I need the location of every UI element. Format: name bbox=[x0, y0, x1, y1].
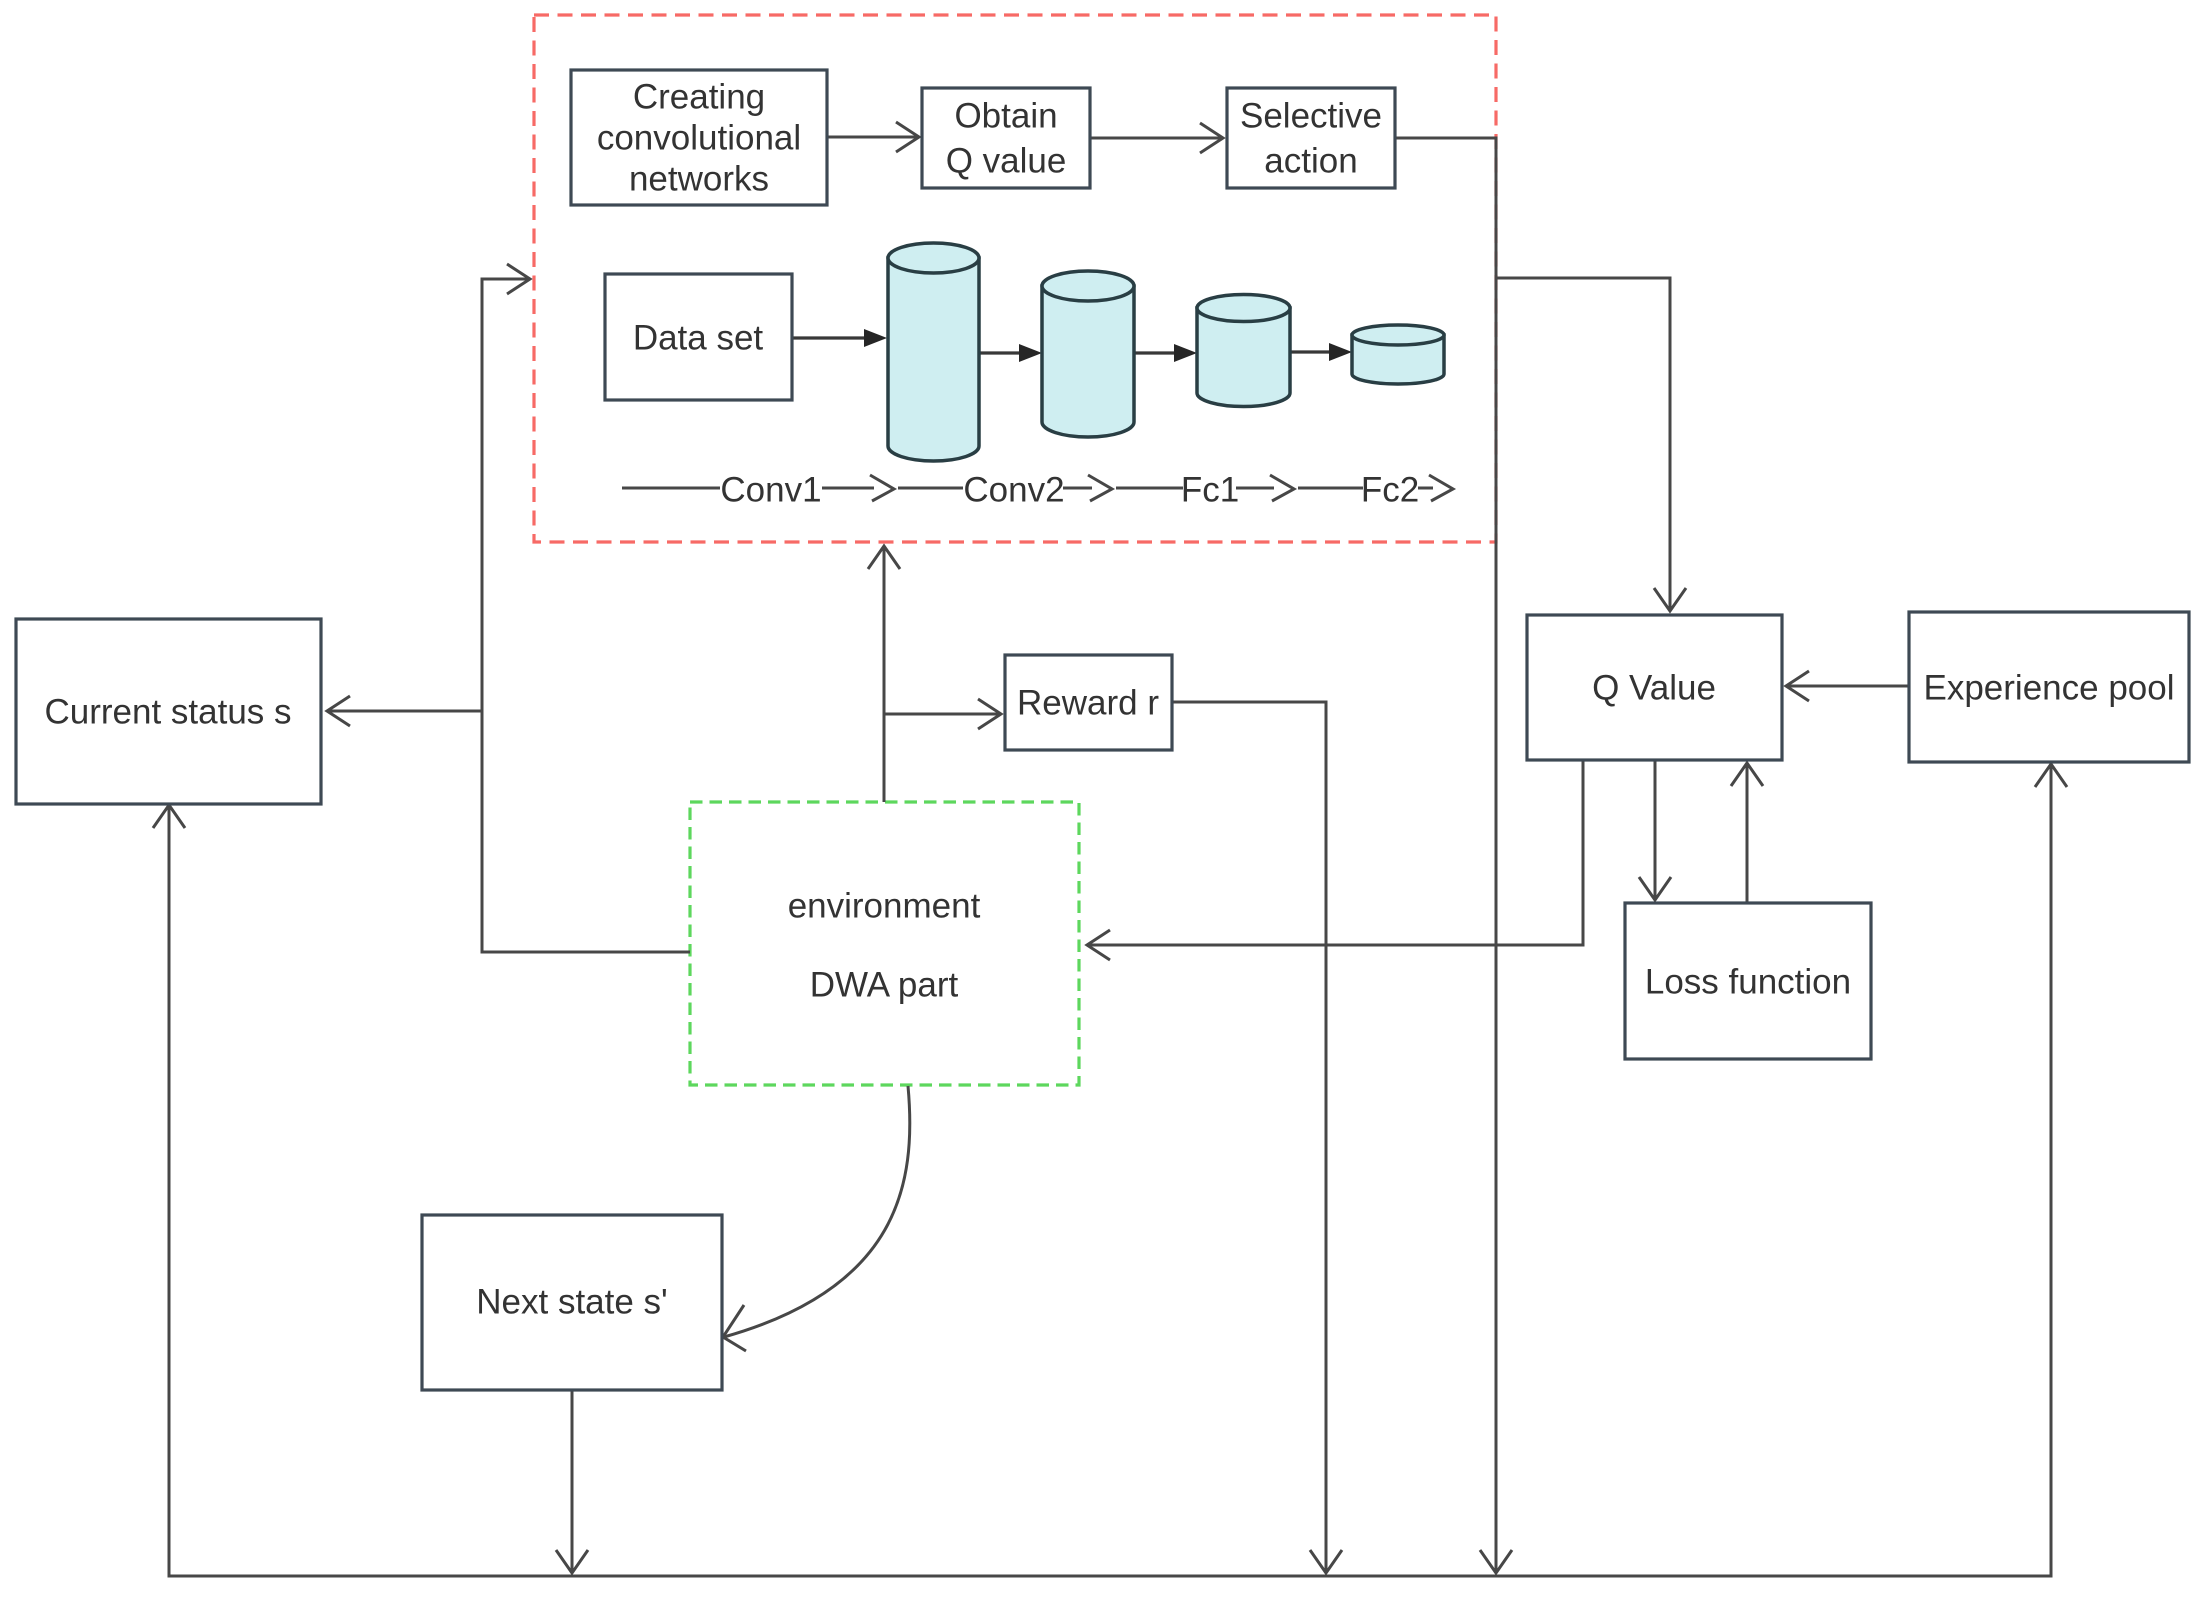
svg-text:Conv1: Conv1 bbox=[720, 471, 821, 510]
svg-text:DWA part: DWA part bbox=[810, 966, 959, 1005]
svg-text:Experience pool: Experience pool bbox=[1924, 669, 2175, 708]
svg-text:Next state s': Next state s' bbox=[476, 1283, 667, 1322]
svg-text:Fc1: Fc1 bbox=[1181, 471, 1239, 510]
svg-text:Conv2: Conv2 bbox=[963, 471, 1064, 510]
svg-text:Current status s: Current status s bbox=[44, 693, 291, 732]
svg-text:Q Value: Q Value bbox=[1592, 669, 1716, 708]
svg-text:action: action bbox=[1264, 142, 1357, 181]
svg-text:Creating: Creating bbox=[633, 78, 765, 117]
svg-text:Obtain: Obtain bbox=[954, 97, 1057, 136]
svg-text:convolutional: convolutional bbox=[597, 119, 801, 158]
svg-text:Loss function: Loss function bbox=[1645, 963, 1851, 1002]
svg-text:environment: environment bbox=[788, 887, 981, 926]
svg-text:Reward r: Reward r bbox=[1017, 684, 1159, 723]
svg-text:Q value: Q value bbox=[946, 142, 1067, 181]
svg-text:Data set: Data set bbox=[633, 319, 764, 358]
svg-text:networks: networks bbox=[629, 160, 769, 199]
svg-text:Selective: Selective bbox=[1240, 97, 1382, 136]
svg-text:Fc2: Fc2 bbox=[1361, 471, 1419, 510]
